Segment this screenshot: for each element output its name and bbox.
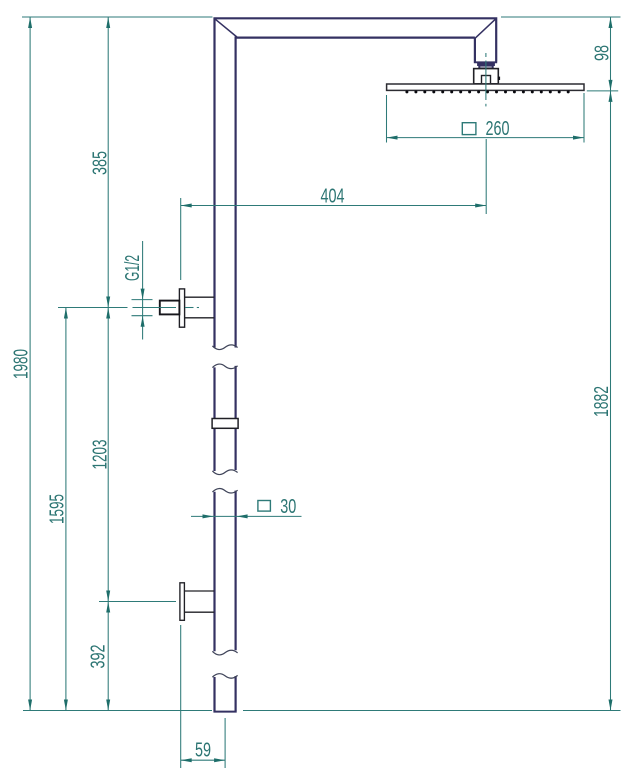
extension line: head left edge (386, 95, 388, 143)
svg-text:404: 404 (321, 186, 345, 208)
shower column bottom tube piece (213, 676, 236, 712)
extension line: head bottom level (right) (587, 90, 618, 92)
handle stem (184, 591, 214, 612)
dimension 392 (handle axis to floor) (88, 602, 111, 711)
svg-text:30: 30 (280, 496, 296, 518)
shower head centerline (dash-dot) (485, 53, 487, 106)
svg-text:59: 59 (195, 740, 211, 762)
svg-text:98: 98 (592, 45, 614, 61)
svg-text:1882: 1882 (591, 386, 613, 417)
extension line: top of column (left) (22, 16, 213, 18)
G1/2 threaded inlet stub (160, 301, 180, 315)
extension line: head right edge (583, 93, 585, 143)
text 30 (280, 496, 296, 518)
dimension 59 (handle axis to column axis) (181, 740, 225, 763)
extension line: 59 right (column axis down) (224, 718, 226, 768)
svg-text:392: 392 (88, 645, 110, 669)
break wave: end of upper tube piece (212, 345, 237, 350)
dimension 98 (top to head bottom) (592, 17, 614, 91)
extension line: supply elbow axis (58, 307, 176, 309)
shower head collar nut neck (479, 66, 492, 69)
extension line: 404 right / head axis (485, 139, 487, 214)
handle flange (180, 583, 185, 621)
spray nozzle dots (405, 90, 569, 93)
extension line: top of column (right) (501, 16, 621, 18)
shower column second tube piece (215, 366, 236, 471)
break wave: start of second tube piece (212, 364, 237, 368)
extension line: handle axis (99, 601, 176, 603)
shower head plate (387, 84, 584, 90)
arm right miter joint line (475, 19, 496, 39)
svg-text:1203: 1203 (89, 440, 111, 470)
dimension 1595 (supply axis to floor) (47, 308, 69, 711)
dimension 260 (head width) (387, 136, 585, 140)
dimension 385 (top to supply axis) (90, 17, 112, 308)
dimension 1203 (supply axis to handle axis) (89, 308, 111, 602)
dimension 1882 (head bottom to floor) (591, 91, 613, 711)
wall supply elbow pipe (185, 297, 215, 318)
arm left miter joint line (215, 19, 237, 37)
break wave: end of third tube piece (212, 650, 237, 655)
shower head collar nut upper lip (478, 63, 495, 66)
dimension 1980 (overall height) (11, 17, 33, 711)
break wave: end of second tube piece (212, 470, 237, 475)
break wave: start of third tube piece (212, 489, 237, 493)
shower head ball-joint housing (474, 69, 499, 84)
dimension G1/2 (inlet thread) (122, 241, 152, 340)
break wave: start of bottom tube piece (212, 674, 237, 678)
extension line: 59 left (handle axis down) (180, 625, 182, 768)
wall supply flange (179, 289, 184, 327)
ball-joint inner square (482, 76, 491, 84)
arm drop end (vertical segment above shower head) (474, 38, 497, 63)
dimension 30 (column width) (191, 514, 302, 518)
supply elbow centerline (dash-dot) (185, 307, 199, 309)
svg-text:G1/2: G1/2 (122, 255, 144, 281)
svg-text:1595: 1595 (47, 494, 69, 524)
ball-joint right notch (498, 77, 501, 80)
square symbol for 30 (258, 501, 271, 512)
svg-text:385: 385 (90, 151, 112, 175)
text 260 (486, 118, 510, 140)
extension line: floor baseline (23, 710, 621, 712)
svg-text:1980: 1980 (11, 349, 33, 379)
shower column third tube piece (215, 491, 236, 652)
shower column upper tube piece (215, 18, 497, 347)
extension line: 404 left (handle/elbow vertical axis) (180, 198, 182, 280)
square symbol for 260 (462, 123, 476, 135)
svg-text:260: 260 (486, 118, 510, 140)
dimension 404 (column to head axis) (181, 186, 487, 208)
tube coupling sleeve (212, 419, 238, 429)
